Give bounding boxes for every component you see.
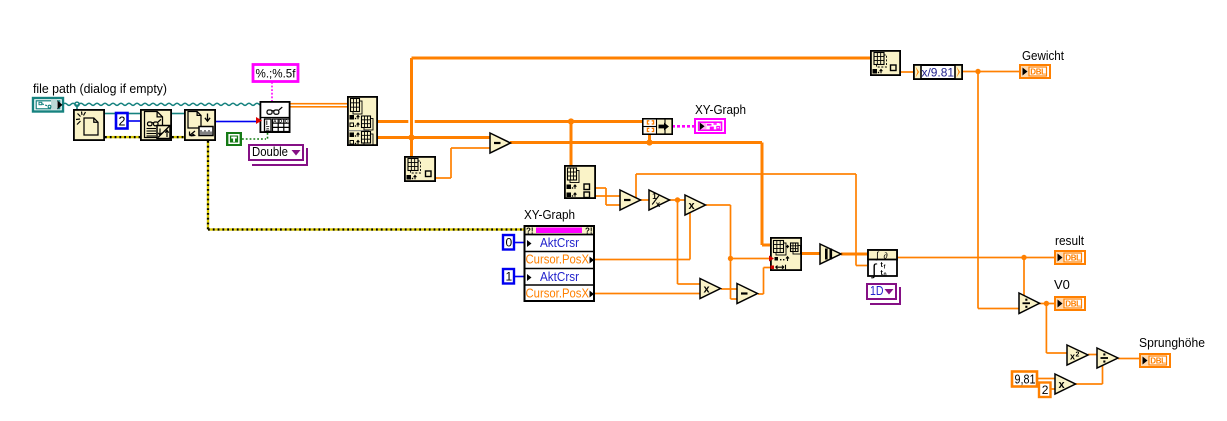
svg-text:Cursor.PosX: Cursor.PosX [526,287,590,301]
wire: thick 1D-array row0 from Index Array 1 to Bundle, branch down to Index Array B [378,118,642,165]
node: Read From Text File [141,110,171,140]
wire: scalar Multiply3 output up to Divide2 lower input [1075,364,1103,385]
svg-text:Sprunghöhe: Sprunghöhe [1139,335,1205,350]
svg-text:XY-Graph: XY-Graph [524,207,575,222]
svg-text:%.;%.5f: %.;%.5f [256,67,297,81]
label: result [1055,233,1084,248]
node: Index Array C (row to scalar) [405,157,435,181]
svg-text:0: 0 [884,273,887,279]
svg-text:∂: ∂ [884,250,888,260]
node: Square x^2 [1067,345,1088,365]
label: XY-Graph (indicator) [695,102,746,117]
svg-text:Gewicht: Gewicht [1022,48,1064,63]
svg-text:AktCrsr: AktCrsr [540,270,579,284]
svg-text:DBL: DBL [1030,68,1046,77]
constant: 1 (blue int) [503,269,514,284]
svg-text:Cursor.PosX: Cursor.PosX [526,253,590,267]
wire: magenta dashed cluster Bundle to XY-Graph indicator [672,125,695,128]
wire: orange 2D-array double line Spreadsheet node to Index Array 1 [290,103,347,108]
wire: scalar Divide1 output to V0 indicator, branch down to Square [1039,301,1067,354]
svg-text:result: result [1055,233,1084,248]
label: Sprunghoehe [1139,335,1205,350]
svg-text:2: 2 [1076,352,1080,359]
wire: scalar Divide2 output to Sprunghoehe indicator [1118,358,1139,360]
label: XY-Graph (property node) [524,207,575,222]
wire: scalar Cursor.PosX 1 output to Multiply2 lower input [595,293,700,295]
wire: green dotted boolean T to Spreadsheet node [242,133,268,139]
node: Subtract B [620,190,641,210]
wire: scalar constant 9,81 to Multiply3 [1038,378,1055,380]
node: Integral x(t) with banner [868,250,897,279]
node: Reciprocal 1/x [649,190,670,210]
label: file path (dialog if empty) [33,81,167,96]
svg-text:V0: V0 [1054,277,1070,292]
svg-text:0: 0 [506,236,513,250]
control: file path terminal [33,98,63,112]
indicator: Sprunghoehe DBL [1140,354,1170,367]
constant: boolean True [226,132,242,146]
node: Array Subset [769,238,801,270]
svg-text:?!: ?! [526,227,534,236]
wire: scalar top Index node output through expression node to Gewicht, branch down to Divide1 lower input [901,69,1019,310]
indicator: result DBL [1055,251,1085,264]
svg-text:x: x [704,284,711,296]
wire: scalar Subtract B output to Reciprocal, branch up-right to Integral x2 input [635,173,867,266]
wire: teal wavy path wire from file-path control to Spreadsheet-String-to-Array [63,102,263,110]
wire: scalar Multiply1 output to Array Subset index and Subtract2 lower input [706,204,770,300]
label: Gewicht [1022,48,1064,63]
wire: scalar Square output to Divide2 [1088,354,1097,356]
node: Get File Size / EOF [185,110,215,140]
node: Norm/magnitude triangle [820,244,841,264]
node: Divide 1 [1019,293,1040,314]
constant: Double enum ring [249,145,307,165]
wire: thick 1D-array Subtract1 output to Bundle lower input and Array Subset [510,135,770,247]
node: expression node x/9.81 [914,65,962,80]
wire: teal refnum Read File to EOF node [172,113,184,115]
svg-text:AktCrsr: AktCrsr [540,236,579,250]
constant: 0 (blue int) [503,235,514,250]
svg-text:x: x [1059,379,1066,391]
node: Multiply 3 [1055,374,1076,394]
node: Open/Create/Replace File [74,110,104,140]
wire: scalar Reciprocal output to Multiply1 and down to Multiply2 [669,197,700,285]
svg-text:?!: ?! [585,227,593,236]
wire gap at crossing 411/121 [408,120,414,123]
wire: scalar Cursor.PosX 0 output up to Multiply1 lower input [595,211,691,260]
wire: thick array Array Subset output to Norm triangle and Integral node [802,252,867,256]
svg-text:Ξ: Ξ [266,127,270,133]
node: Subtract 1 [490,133,511,153]
node: Index Array 1 (two row outputs) [348,97,377,146]
svg-text:f: f [884,265,886,271]
node: Divide 2 [1097,348,1118,368]
wire: blue int constant 1 to property node [514,276,524,278]
wire: scalar Integral output to result indicator, branch down to Divide1 [898,255,1054,297]
svg-text:2: 2 [1042,383,1049,397]
svg-text:DBL: DBL [1065,254,1081,263]
constant: 9,81 (orange DBL) [1012,372,1037,387]
svg-text:x: x [1070,352,1075,362]
svg-text:x: x [689,200,696,212]
node: Index Array B (two scalar outputs) [565,166,595,198]
node: Index Array D (top right) [871,51,900,75]
wire: scalar Subtract2 output up to Array Subset length input [758,267,770,295]
constant: 1D enum ring [867,284,900,304]
svg-text:XY-Graph: XY-Graph [695,102,746,117]
svg-text:9,81: 9,81 [1015,373,1036,387]
wire: scalar Multiply2 output to Subtract2 [721,288,737,290]
svg-text:file path (dialog if empty): file path (dialog if empty) [33,81,167,96]
node: XY-Graph property node (AktCrsr / Cursor.PosX x2) [524,226,596,301]
wire: blue string from EOF node to Spreadsheet String to Array [216,121,257,123]
constant: 2 (orange DBL) [1039,383,1051,398]
indicator: V0 DBL [1055,297,1085,310]
svg-text:x/9.81: x/9.81 [922,66,955,80]
svg-text:Double: Double [252,145,288,159]
svg-text:DBL: DBL [1150,357,1166,366]
wire: scalar outputs of Index Array B crossing into Subtract B [596,187,620,206]
wire: blue int constant 0 to property node [514,242,524,244]
svg-text:1D: 1D [870,284,884,298]
wire: teal refnum Open File to Read File [105,113,140,115]
constant: 2 (blue int) [116,113,128,129]
indicator: XY-Graph terminal [695,119,725,133]
svg-text:x: x [656,200,661,209]
node: Spreadsheet String To Array [256,102,290,133]
wire: scalar constant 2 to Multiply3 [1051,388,1055,390]
svg-text:DBL: DBL [1065,300,1081,309]
svg-text:2: 2 [119,115,126,129]
label: V0 [1054,277,1070,292]
wire: scalar from Index Array C up to Subtract1 lower input [436,147,490,179]
node: Bundle (cluster of x and y arrays) [643,119,672,134]
indicator: Gewicht DBL [1020,65,1050,78]
svg-text:1: 1 [506,270,513,284]
wire: error cluster dashed yellow-black [105,136,524,231]
node: Subtract 2 [737,284,758,304]
wire: magenta dotted format string to Spreadsheet node [271,82,273,101]
wire: blue int from constant 2 to Read File [128,120,140,122]
constant: %.;%.5f format string [253,65,298,82]
node: Multiply 1 [685,195,706,215]
wire: thick 1D-array row1 from Index Array 1 to Subtract1, branches up to top Index node and down to Index Array C [378,57,870,157]
node: Multiply 2 [700,279,721,299]
